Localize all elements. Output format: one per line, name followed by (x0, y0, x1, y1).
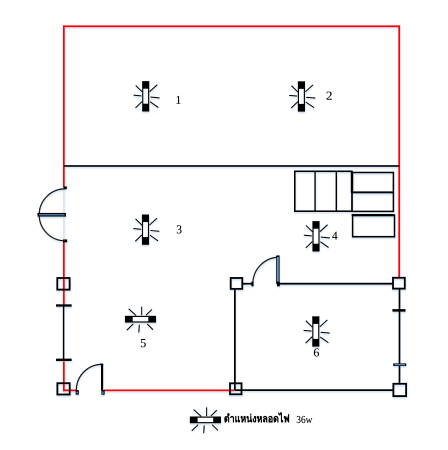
inner room top wall left segment (242, 283, 252, 285)
door (bottom-left): latch marker (101, 390, 104, 395)
lamp F5 (126, 307, 156, 333)
legend text: 36w (297, 416, 313, 423)
lamp F6 (304, 317, 330, 346)
door (bottom-left): hinge marker (76, 390, 79, 395)
door (bottom-left): swing arc (76, 364, 102, 390)
double swing door (left wall): bottom jamb marker (63, 239, 67, 242)
window left wall: black segment (63, 306, 65, 361)
cabinet C top edge thick (352, 214, 395, 216)
cabinet block A divider 1 (314, 171, 316, 211)
inner room right wall (399, 289, 401, 384)
double swing door (left wall): leaf blue core (39, 214, 65, 216)
lamp F4 (304, 222, 330, 251)
double swing door (left wall): top jamb marker (64, 186, 67, 189)
door (bottom-left): leaf top cap (100, 364, 103, 366)
double swing door (left wall): opening chord (faint) (63, 189, 65, 241)
cabinet block B left edge thick (351, 172, 354, 193)
outer wall right (red) (398, 25, 400, 278)
label 1 (176, 96, 180, 104)
window left wall: lower tick (56, 359, 72, 361)
label 5 (141, 339, 146, 347)
door (bottom-left): latch blue dash (102, 391, 103, 394)
label 2 (326, 92, 331, 100)
door (bottom-left): leaf (101, 364, 103, 390)
door (inner room): hinge tick (251, 282, 253, 287)
outer wall left upper (red) (63, 25, 65, 187)
door (inner room): leaf (blue) (277, 256, 280, 283)
outer wall bottom (red) (104, 389, 235, 391)
legend text (Thai): drawn as vector strokes (224, 412, 289, 422)
door (inner room): latch marker (277, 282, 280, 287)
outer wall bottom left (red) (63, 389, 77, 391)
lamp F2 (289, 82, 315, 111)
lamp F1 (134, 82, 160, 111)
window right wall: lower tick blue core (395, 364, 406, 366)
door (bottom-left): hinge blue dot (77, 392, 78, 394)
inner room left wall (234, 289, 236, 390)
door (inner room): swing arc (253, 257, 278, 283)
inner room column bottom-right (393, 384, 406, 396)
window right wall: upper tick (392, 309, 405, 312)
inner room top wall right segment (280, 283, 394, 285)
window left wall: upper tick (56, 304, 72, 306)
cabinet block B divider (351, 191, 393, 193)
label 6 (314, 348, 319, 356)
inner room bottom wall (235, 389, 394, 391)
column left wall lower (57, 383, 69, 394)
double swing door (left wall): leaf (38, 213, 67, 217)
outer wall left middle (red) (63, 242, 65, 305)
cabinet C (353, 215, 395, 237)
label 4 (332, 232, 337, 240)
partition wall (black, full width) (64, 165, 399, 167)
legend lamp symbol (190, 407, 220, 433)
outer wall left lower (red) (63, 361, 65, 391)
inner room column top-right (393, 278, 405, 289)
cabinet block A divider 2 (335, 171, 337, 211)
door (inner room): leaf top cap (276, 255, 279, 257)
inner room column bottom-left (230, 383, 242, 394)
double swing door (left wall): swing arcs (39, 189, 65, 241)
column left wall upper (57, 278, 69, 290)
cabinet block A (3 cells) (295, 171, 352, 211)
lamp F3 (133, 215, 159, 244)
cabinet block B (2 cells) (352, 173, 393, 212)
label 3 (177, 225, 182, 233)
outer wall top (red) (63, 25, 400, 27)
window right wall: lower tick (393, 363, 406, 366)
inner room column top-left (231, 278, 243, 289)
